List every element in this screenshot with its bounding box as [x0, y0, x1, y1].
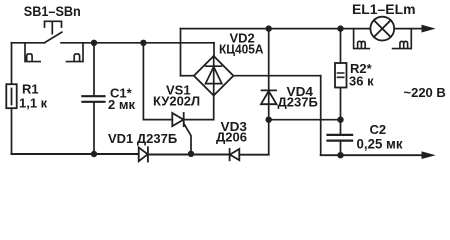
svg-text:КЦ405А: КЦ405А: [219, 42, 264, 57]
wire stub to bridge top vertex: [213, 43, 215, 56]
node SBn branch symbol (n): [67, 43, 84, 62]
wire bridge bottom stub: [184, 96, 214, 120]
svg-text:1,1 к: 1,1 к: [19, 96, 48, 111]
lamp EL1 cross: [374, 20, 391, 37]
node EL1 branch symbol (m): [354, 29, 370, 49]
capacitor C1 branch top: [93, 43, 95, 96]
diode VD4 branch vertical: [268, 29, 270, 155]
thyristor VS1 gate: [184, 124, 191, 154]
wire bottom to VD4 node: [239, 154, 268, 156]
capacitor C2 bottom stub: [340, 141, 342, 155]
svg-text:Д237Б: Д237Б: [278, 95, 318, 110]
capacitor C1: [82, 96, 104, 102]
svg-text:R1: R1: [22, 82, 39, 97]
svg-text:EL1–ELm: EL1–ELm: [352, 1, 416, 17]
svg-text:SB1–SBn: SB1–SBn: [24, 3, 81, 19]
svg-text:Д206: Д206: [216, 130, 247, 145]
capacitor C1 branch bottom: [93, 103, 95, 154]
resistor R2: [335, 63, 347, 88]
wire bottom mid: [148, 154, 230, 156]
svg-text:C2: C2: [370, 122, 387, 137]
node SB1 branch symbol (n): [25, 43, 40, 62]
wire left rail top: [11, 43, 13, 84]
wire riser lamp wire to bridge left vertex: [180, 29, 182, 76]
svg-text:0,25 мк: 0,25 мк: [357, 137, 403, 152]
arrow mains bottom: [422, 152, 434, 158]
node ELm branch symbol (m): [393, 29, 412, 49]
wire lamp feed: [181, 28, 371, 30]
svg-text:КУ202Л: КУ202Л: [153, 94, 200, 109]
svg-text:VD1 Д237Б: VD1 Д237Б: [108, 131, 177, 146]
resistor R1: [6, 84, 16, 108]
junction VS1 gate: [188, 151, 194, 157]
svg-text:2 мк: 2 мк: [108, 97, 135, 112]
junction C1 top: [91, 40, 97, 46]
diode VD1: [139, 147, 148, 161]
junction R2 top: [337, 25, 343, 31]
bridge rectifier VD2 diamond: [194, 56, 234, 96]
diode VD3: [230, 149, 240, 160]
junction C1 bottom: [91, 151, 97, 157]
lamp EL1 circle: [370, 17, 394, 41]
wire VD4 node to C2 node: [269, 119, 341, 121]
svg-text:36 к: 36 к: [349, 74, 374, 89]
wire bottom right mains: [321, 154, 423, 156]
wire left rail bottom: [11, 108, 13, 154]
switch SB1 actuator cap: [45, 21, 62, 33]
wire bottom left: [12, 153, 139, 155]
wire R2 column top: [340, 29, 342, 63]
thyristor VS1: [172, 113, 183, 126]
junction VS1 riser top: [140, 40, 146, 46]
svg-text:~220 В: ~220 В: [404, 85, 446, 100]
diode VD4: [261, 90, 277, 104]
wire buttons right segment: [61, 42, 214, 44]
junction VD4 node: [266, 117, 272, 123]
wire buttons left segment: [12, 42, 45, 44]
arrow mains top: [422, 25, 434, 31]
wire VS1 anode to riser: [143, 43, 172, 120]
wire bridge right vertex to mains drop: [233, 75, 320, 77]
capacitor C2: [328, 135, 353, 141]
wire lamp to arrow: [394, 28, 423, 30]
wire mains drop vertical: [320, 76, 322, 156]
junction C2 bottom: [337, 152, 343, 158]
switch SB1 blade: [45, 32, 62, 42]
wire bridge left vertex link: [181, 75, 194, 77]
junction VD4 top: [266, 25, 272, 31]
bridge VD2 inner diode: [206, 56, 222, 96]
junction R2/C2 node: [337, 117, 343, 123]
wire R2 bottom to node: [340, 88, 342, 135]
